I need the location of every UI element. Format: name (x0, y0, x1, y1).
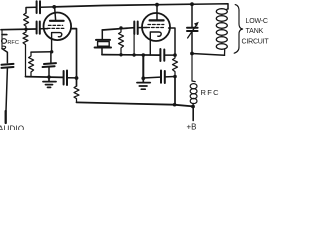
node screen bypass junction (75, 76, 79, 80)
crystal Y1 (95, 30, 111, 55)
inductor RFC1 audio choke (2, 30, 7, 49)
wire B+ stub (192, 107, 194, 121)
wire C7 to screen column (165, 54, 175, 56)
node grid rail junction (24, 28, 27, 31)
wire cathode rail 2 (102, 54, 160, 57)
wire tube V1 screen lead (71, 29, 77, 86)
wire bus cap to screen column (68, 77, 77, 79)
tube V2 cathode (150, 32, 161, 55)
resistor R2 grid leak tube1 (23, 29, 28, 76)
node R5 bottom (119, 53, 122, 56)
ground G1 (43, 77, 56, 87)
wire tube V2 screen lead (169, 28, 175, 55)
wire tank bottom (192, 54, 225, 56)
capacitor C1 top feedback (37, 1, 40, 13)
wire audio input lead (6, 68, 8, 123)
node ground junction 2 (141, 76, 145, 80)
tube V2 envelope (142, 13, 170, 41)
node ground junction (47, 75, 51, 79)
wire top rail left corner (26, 7, 36, 13)
node C8 junction (173, 75, 177, 79)
tube V1 envelope (44, 12, 72, 40)
tube V1 grid dashes (47, 25, 63, 28)
capacitor C8 ground rf bypass lower (143, 71, 175, 84)
svg-text:LOW-C: LOW-C (246, 18, 268, 25)
svg-text:RFC: RFC (7, 40, 19, 46)
svg-text:CIRCUIT: CIRCUIT (242, 39, 270, 46)
node tank bottom junction (190, 52, 194, 56)
capacitor C3 cathode bypass (43, 52, 56, 77)
node J3 variable capacitor junction (190, 2, 194, 6)
wire grid cap to tube2 (138, 27, 146, 29)
node B+ junction (191, 105, 195, 109)
wire ground bus left (26, 76, 64, 79)
capacitor C4 screen bypass (64, 71, 67, 86)
wire tube2 ground column (142, 55, 144, 78)
node J2 tube2 plate junction (155, 3, 159, 7)
capacitor C7 cathode rf bypass upper (160, 49, 164, 61)
capacitor C5 audio coupling (2, 64, 14, 68)
node bus junction (173, 103, 177, 107)
capacitor C9 variable tank tuning (187, 4, 199, 53)
wire top rail right (157, 3, 192, 6)
wire grid cap to tube1 (40, 28, 47, 30)
svg-text:RFC: RFC (201, 88, 220, 97)
resistor R1 grid feedback (24, 13, 29, 29)
tube V2 plate (150, 5, 164, 21)
svg-text:+B: +B (187, 123, 197, 131)
ground G2 (137, 78, 150, 89)
node tube2 cathode ground junction (142, 53, 146, 57)
inductor L2 plate RFC (190, 54, 197, 107)
svg-text:TANK: TANK (246, 28, 264, 35)
wire cathode rail 1 (31, 51, 52, 53)
node screen column top (173, 53, 177, 57)
wire screen column to bus (174, 77, 176, 105)
capacitor C2 grid tube1 (37, 22, 40, 34)
node J1 tube1 plate junction (52, 5, 56, 9)
brace tank circuit (234, 5, 242, 54)
capacitor C6 grid tube2 (134, 22, 138, 56)
inductor L1 tank coil (216, 9, 228, 56)
tube V1 plate (50, 7, 64, 21)
tube V2 grid dashes (147, 25, 165, 28)
resistor R3 cathode bias (29, 52, 34, 77)
svg-text:AUDIO: AUDIO (0, 124, 24, 130)
resistor R5 grid leak 2 (119, 28, 124, 55)
wire grid rail 2 (102, 28, 134, 30)
wire grid rail 1 (1, 28, 36, 31)
wire top rail to tank corner (192, 4, 228, 9)
wire top rail to tube1 plate (41, 6, 54, 8)
wire bottom B+ bus (77, 102, 194, 106)
node grid leak junction 2 (119, 26, 122, 29)
tube V1 cathode (52, 33, 62, 52)
wire audio lead jog (2, 49, 7, 63)
node cathode junction tube1 (50, 50, 53, 53)
wire top rail middle (54, 5, 157, 7)
node C6 plate to cathode rail (132, 53, 135, 56)
resistor R4 screen dropping (74, 86, 79, 102)
resistor R6 screen dropping 2 (173, 55, 178, 76)
